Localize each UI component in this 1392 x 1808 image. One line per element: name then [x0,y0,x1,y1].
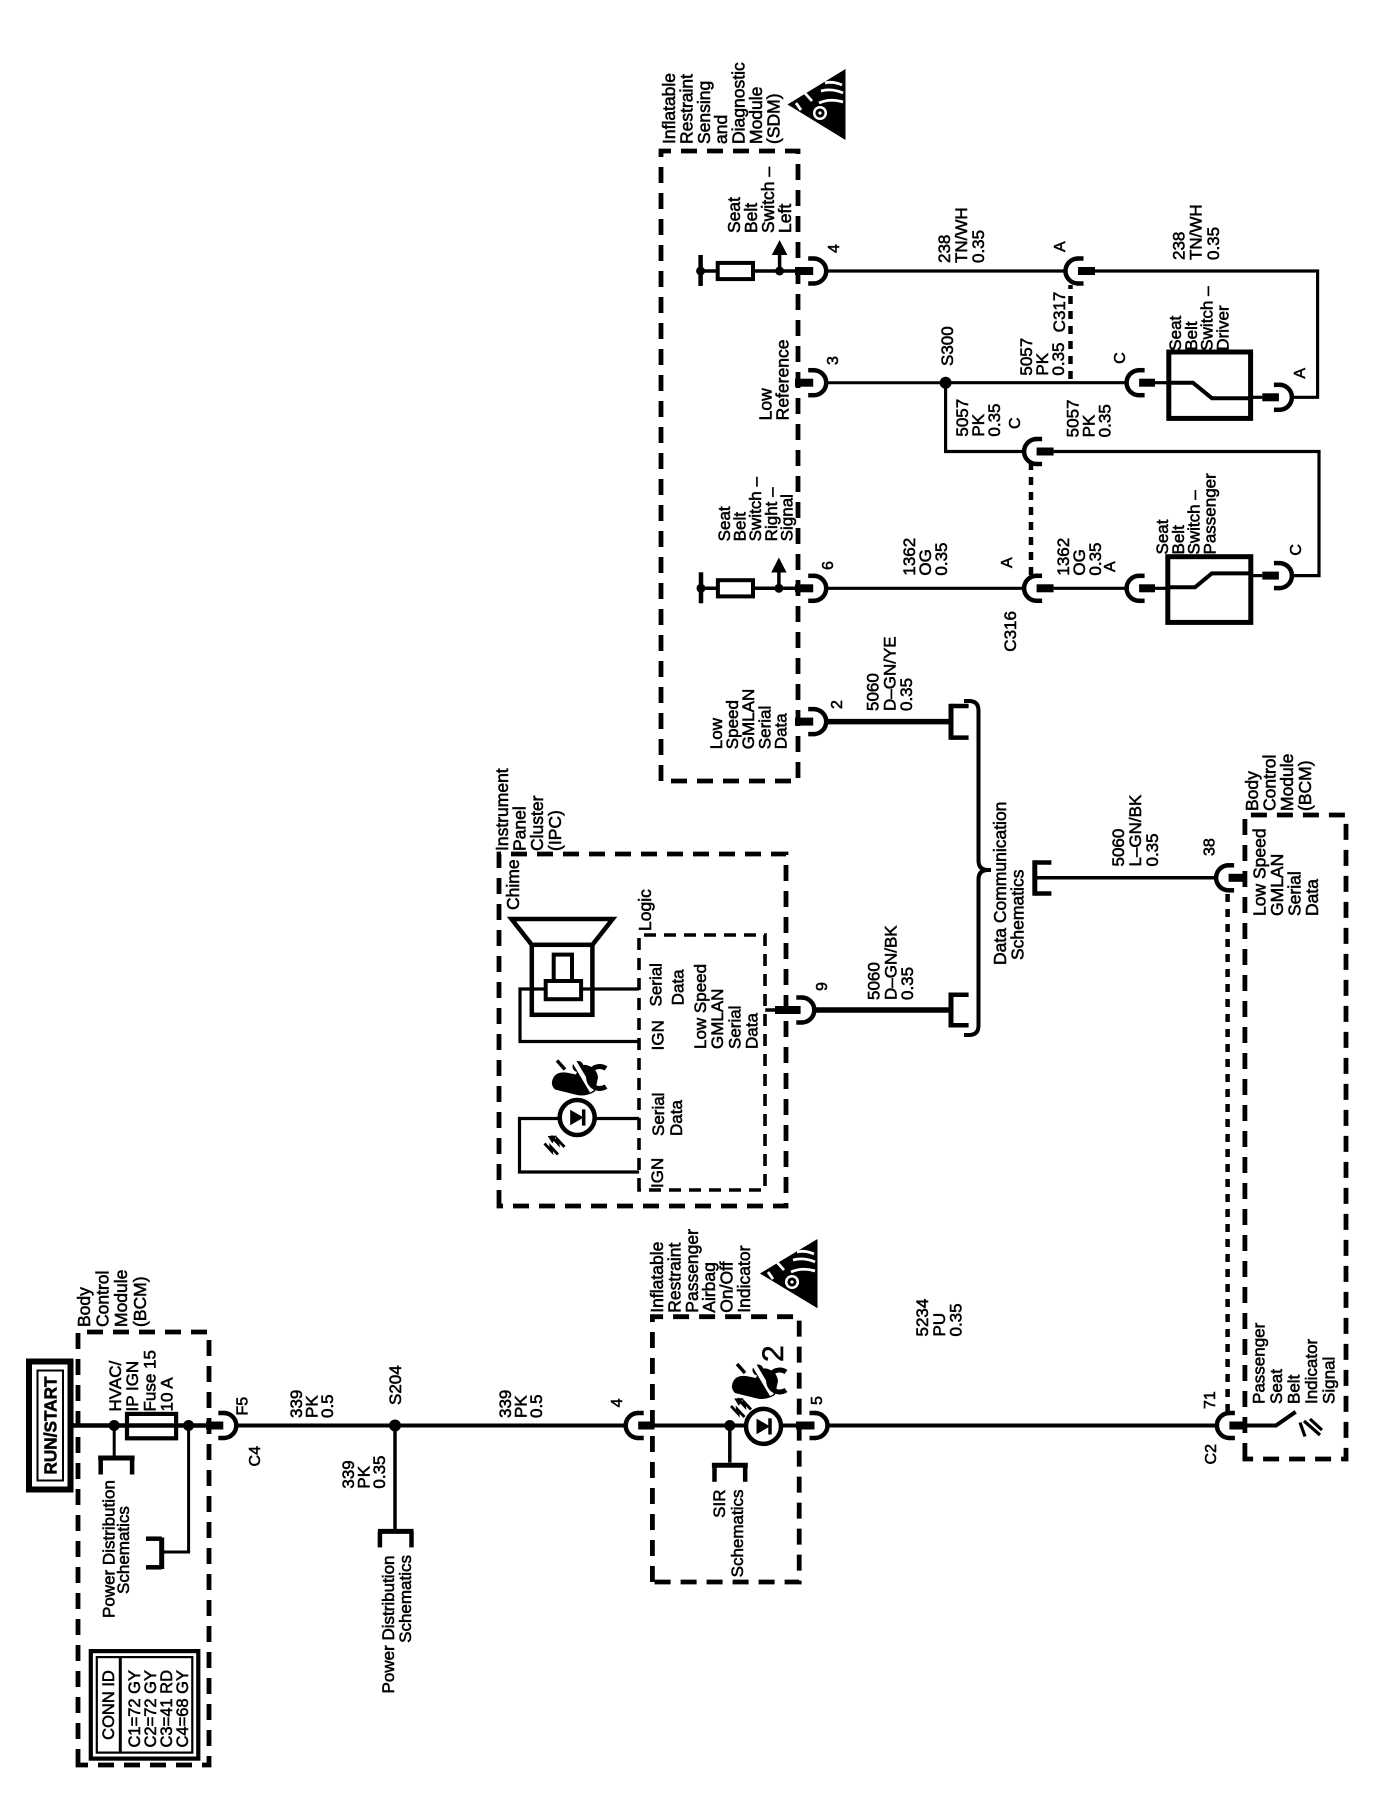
wire: 5060 D-GN/BK from IPC pin 9 [765,1008,776,1012]
node: junction before fuse [109,1420,120,1431]
svg-text:HVAC/: HVAC/ [106,1361,125,1412]
pin 4 exit male stub (SDM) [795,267,813,275]
svg-text:Data: Data [743,1013,762,1049]
arrow: switch wiper pin6 [777,572,781,589]
pin F5 exit connector arc [224,1413,236,1438]
wire: fuse to BCM edge [176,1423,206,1428]
svg-text:0.35: 0.35 [370,1456,389,1489]
wire: S204 down to indicator pin 4 [395,1424,626,1428]
chime speaker horn [512,919,613,945]
svg-text:A: A [1102,561,1119,572]
svg-text:C4: C4 [247,1446,264,1467]
wire: stub into driver box [1155,381,1169,384]
connector gang dashed tie C316 [1029,464,1034,575]
wire: C4 to S204 [236,1424,395,1428]
svg-text:Serial: Serial [725,1006,744,1049]
svg-text:6: 6 [820,561,837,570]
svg-text:9: 9 [814,982,831,991]
svg-text:Data: Data [1302,879,1322,916]
fuse F5: HVAC/IP IGN Fuse 15 10A [127,1414,176,1438]
svg-text:0.5: 0.5 [527,1394,546,1418]
svg-text:Schematics: Schematics [114,1506,133,1594]
svg-text:C: C [1112,352,1129,364]
switch lever (passenger) [1168,573,1251,587]
svg-text:Driver: Driver [1213,305,1232,351]
node: junction after fuse [183,1420,194,1431]
switch icon: passenger seat belt indicator signal [1246,1412,1296,1426]
wire: 1362 C316 to passenger switch [1054,587,1127,590]
module box: Body Control Module BCM (bottom right) [1245,815,1346,1459]
wire: RUN/START down to fuse [71,1423,128,1428]
svg-text:CONN ID: CONN ID [100,1670,118,1740]
svg-text:F5: F5 [235,1397,252,1416]
svg-text:238: 238 [1170,232,1189,260]
connector gang dashed tie C317 [1068,285,1073,379]
passenger switch bottom male [1262,572,1279,580]
svg-text:(IPC): (IPC) [545,810,565,851]
node: arrow junction pin6 [774,584,783,593]
wire: stub into passenger box [1155,587,1168,590]
svg-text:4: 4 [609,1398,626,1407]
chime speaker body [532,945,593,1015]
pin 5 exit connector arc [815,1413,827,1438]
node: splice S300 [940,377,952,389]
driver switch top male [1139,379,1155,387]
wire: LED serial data [595,1117,639,1120]
svg-text:0.35: 0.35 [969,230,988,263]
off-page bracket: SIR Schematics [712,1463,748,1468]
wire: 5060 D-GN/YE from pin 2 [826,719,951,725]
svg-text:C2: C2 [1203,1444,1220,1465]
arrow: switch wiper pin4 [778,254,782,271]
off-page bracket 1: Power Distribution [98,1456,134,1461]
wire: chime IGN loop [520,989,639,1042]
off-page bracket 3: Power Distribution below S204 [378,1529,414,1534]
svg-text:(BCM): (BCM) [1295,760,1315,811]
wire: 1362 pin6 to C316 [826,587,1024,590]
LED indicator circle (passenger airbag) [746,1409,781,1444]
icon: seat belt telltale (indicator) [732,1363,786,1399]
svg-text:0.5: 0.5 [318,1394,337,1418]
warning triangle: SDM airbag symbol [788,69,846,140]
logic box inside IPC [639,935,765,1190]
pin 2 exit male stub (SDM) [795,718,813,726]
power feed box: RUN/START [29,1362,71,1490]
pin 71 entry connector arc [1217,1413,1230,1438]
module box: Instrument Panel Cluster (IPC) [499,854,786,1206]
connector C316 cavity C male [1037,448,1054,456]
LED telltale circle (IPC) [560,1100,595,1135]
svg-text:Data: Data [771,713,790,749]
svg-text:TN/WH: TN/WH [1187,204,1206,260]
svg-text:0.35: 0.35 [1096,404,1115,437]
node: splice S204 [389,1420,401,1432]
wire: through fuse [127,1423,176,1428]
svg-text:Indicator: Indicator [1302,1338,1321,1404]
off-page bracket 2: Power Distribution [159,1538,164,1570]
wire: resistor to pin 4 [753,269,795,273]
svg-text:Signal: Signal [1320,1357,1339,1404]
resistor: seat belt switch left [718,263,753,279]
switch lever (driver) [1169,383,1251,399]
resistor: seat belt switch right [718,580,753,596]
driver switch bottom connector arc [1279,385,1292,410]
svg-text:A: A [1052,241,1069,252]
svg-text:4: 4 [826,244,843,253]
driver switch top connector arc [1127,370,1140,395]
svg-text:S300: S300 [938,326,957,366]
svg-text:Seat: Seat [1267,1369,1286,1404]
svg-text:A: A [999,557,1016,568]
node: arrow junction pin4 [775,267,784,276]
svg-text:Schematics: Schematics [1008,869,1028,960]
connector C317 cavity A arc [1066,259,1079,284]
svg-text:0.35: 0.35 [897,678,916,711]
warning triangle: indicator airbag symbol [760,1239,818,1308]
pin 3 exit male stub (SDM) [795,379,813,387]
wire: pin 5 to pin 71 [828,1424,1217,1428]
svg-text:Fuse 15: Fuse 15 [140,1350,159,1411]
svg-text:0.35: 0.35 [932,543,951,576]
pin 2 exit connector arc (SDM) [814,709,827,734]
svg-text:3: 3 [825,356,842,365]
wire: S300 branch to C316 [946,383,1025,452]
svg-text:38: 38 [1202,838,1219,856]
svg-text:Data: Data [667,1100,686,1136]
passenger switch top connector arc [1127,576,1140,601]
svg-text:Reference: Reference [773,340,793,421]
connector C316 cavity A arc [1024,576,1037,601]
table: CONN ID [91,1651,199,1759]
pin 4 exit connector arc (SDM) [814,259,827,284]
LED emission arrows (IPC) [551,1136,565,1147]
svg-text:Signal: Signal [777,494,796,541]
off-page bracket: to BCM 38 [1032,860,1037,895]
module box: Body Control Module BCM (left, fuse block) [78,1332,209,1765]
driver switch bottom male [1262,393,1279,401]
module box: Inflatable Restraint Sensing and Diagnostic Module (SDM) [661,151,798,781]
svg-text:Serial: Serial [649,1093,668,1136]
terminal T-cap pin6 circuit [699,572,704,603]
off-page bracket: pin 2 data [949,704,954,740]
svg-text:0.35: 0.35 [1143,833,1162,866]
LED diode triangle [757,1419,771,1435]
wire: T to resistor (left belt switch) [701,269,718,273]
svg-text:Schematics: Schematics [396,1555,415,1643]
svg-text:Body: Body [74,1287,94,1327]
svg-text:Control: Control [93,1271,113,1327]
passenger switch bottom stub [1251,574,1263,577]
svg-text:Logic: Logic [635,889,655,931]
component box: Seat Belt Switch - Driver [1169,352,1251,418]
pin 6 exit connector arc (SDM) [814,576,827,601]
pin 9 exit connector arc (IPC) [802,998,814,1023]
wire: branch to power distribution bracket 2 [187,1426,190,1553]
wire: LED IGN loop [520,1119,640,1173]
wire: pin 9 to data bracket [814,1007,951,1013]
wire: branch to power distribution bracket 1 [113,1426,116,1458]
svg-text:Belt: Belt [1285,1374,1304,1404]
svg-text:0.35: 0.35 [1204,227,1223,260]
svg-text:IGN: IGN [649,1020,668,1050]
module box: Inflatable Restraint Passenger Airbag On/Off Indicator [652,1317,799,1582]
svg-text:2: 2 [829,700,846,709]
pin 6 exit male stub (SDM) [795,584,813,592]
passenger switch top male [1139,584,1155,592]
svg-text:Indicator: Indicator [734,1245,754,1312]
svg-text:C4=68 GY: C4=68 GY [174,1670,192,1748]
svg-text:Low Speed: Low Speed [691,964,710,1049]
svg-text:S204: S204 [386,1365,405,1405]
svg-text:C: C [1007,417,1024,429]
svg-text:SIR: SIR [710,1490,729,1518]
connector gang dashed tie C2 [1225,891,1230,1412]
svg-text:A: A [1292,368,1309,379]
pin 5 exit male stub [796,1422,815,1430]
node: junction SIR branch [724,1420,735,1431]
svg-text:71: 71 [1202,1391,1219,1409]
LED diode triangle (IPC) [570,1110,584,1126]
svg-text:Module: Module [111,1270,131,1327]
svg-text:Chime: Chime [503,859,523,910]
svg-text:C317: C317 [1050,292,1069,333]
connector C316 cavity A male [1037,584,1054,592]
svg-text:Passenger: Passenger [1200,473,1219,555]
wire: resistor to pin 6 [753,587,795,591]
wire: S204 branch to bracket 3 [393,1426,397,1530]
svg-text:Schematics: Schematics [728,1490,747,1578]
svg-text:Serial: Serial [647,963,666,1006]
LED emission arrows [738,1399,752,1410]
svg-text:C316: C316 [1001,611,1020,652]
svg-text:Data: Data [669,969,688,1005]
wire: 238 C317 to driver switch loop [1095,271,1318,397]
pin 71 male stub into BCM [1229,1422,1246,1430]
pin 38 entry connector arc [1216,865,1229,890]
pin 4 entry connector arc (indicator) [626,1413,639,1438]
svg-text:Left: Left [775,204,795,233]
pin F5 exit of BCM: male stub [206,1422,223,1430]
pin 9 exit male stub (IPC) [775,1006,801,1014]
svg-text:(BCM): (BCM) [130,1276,150,1327]
component box: Seat Belt Switch - Passenger [1168,557,1251,623]
svg-text:0.35: 0.35 [1049,343,1068,376]
pin 4 male stub into indicator box [638,1422,654,1430]
wire: 5057 to passenger switch loop [1054,452,1319,576]
svg-text:2: 2 [757,1345,790,1362]
wire: data comm bracket to pin 38 [1036,876,1217,880]
wire: 238 pin4 to C317 [826,269,1065,272]
svg-text:0.35: 0.35 [985,404,1004,437]
svg-text:(SDM): (SDM) [763,93,783,144]
pin 38 male stub into BCM [1229,874,1246,882]
svg-text:0.35: 0.35 [898,967,917,1000]
connector C317 cavity A male [1078,267,1095,275]
wire: 5057 S300 to driver switch connector [946,381,1127,384]
svg-text:C: C [1288,544,1305,556]
svg-text:GMLAN: GMLAN [708,989,727,1049]
svg-text:5: 5 [809,1396,826,1405]
svg-text:RUN/START: RUN/START [41,1376,61,1475]
off-page bracket: pin 9 data [949,993,954,1028]
chime clapper [554,955,572,982]
terminal T-cap pin4 circuit [698,255,703,286]
passenger switch bottom connector arc [1279,563,1292,588]
svg-text:IP IGN: IP IGN [123,1361,142,1412]
svg-text:Passenger: Passenger [1250,1322,1269,1404]
connector C316 cavity C arc [1024,439,1037,464]
svg-text:0.35: 0.35 [947,1303,966,1336]
wire: SIR branch [728,1426,732,1463]
wire: T to resistor (right belt switch) [701,587,718,591]
brace: data communication [964,701,991,1035]
wire: 5057 pin3 to S300 [826,381,945,384]
pin 3 exit connector arc (SDM) [814,370,827,395]
svg-text:IGN: IGN [648,1158,667,1188]
driver switch bottom stub [1251,396,1263,399]
wire: indicator internal rail [655,1424,797,1428]
svg-text:10 A: 10 A [158,1377,177,1412]
